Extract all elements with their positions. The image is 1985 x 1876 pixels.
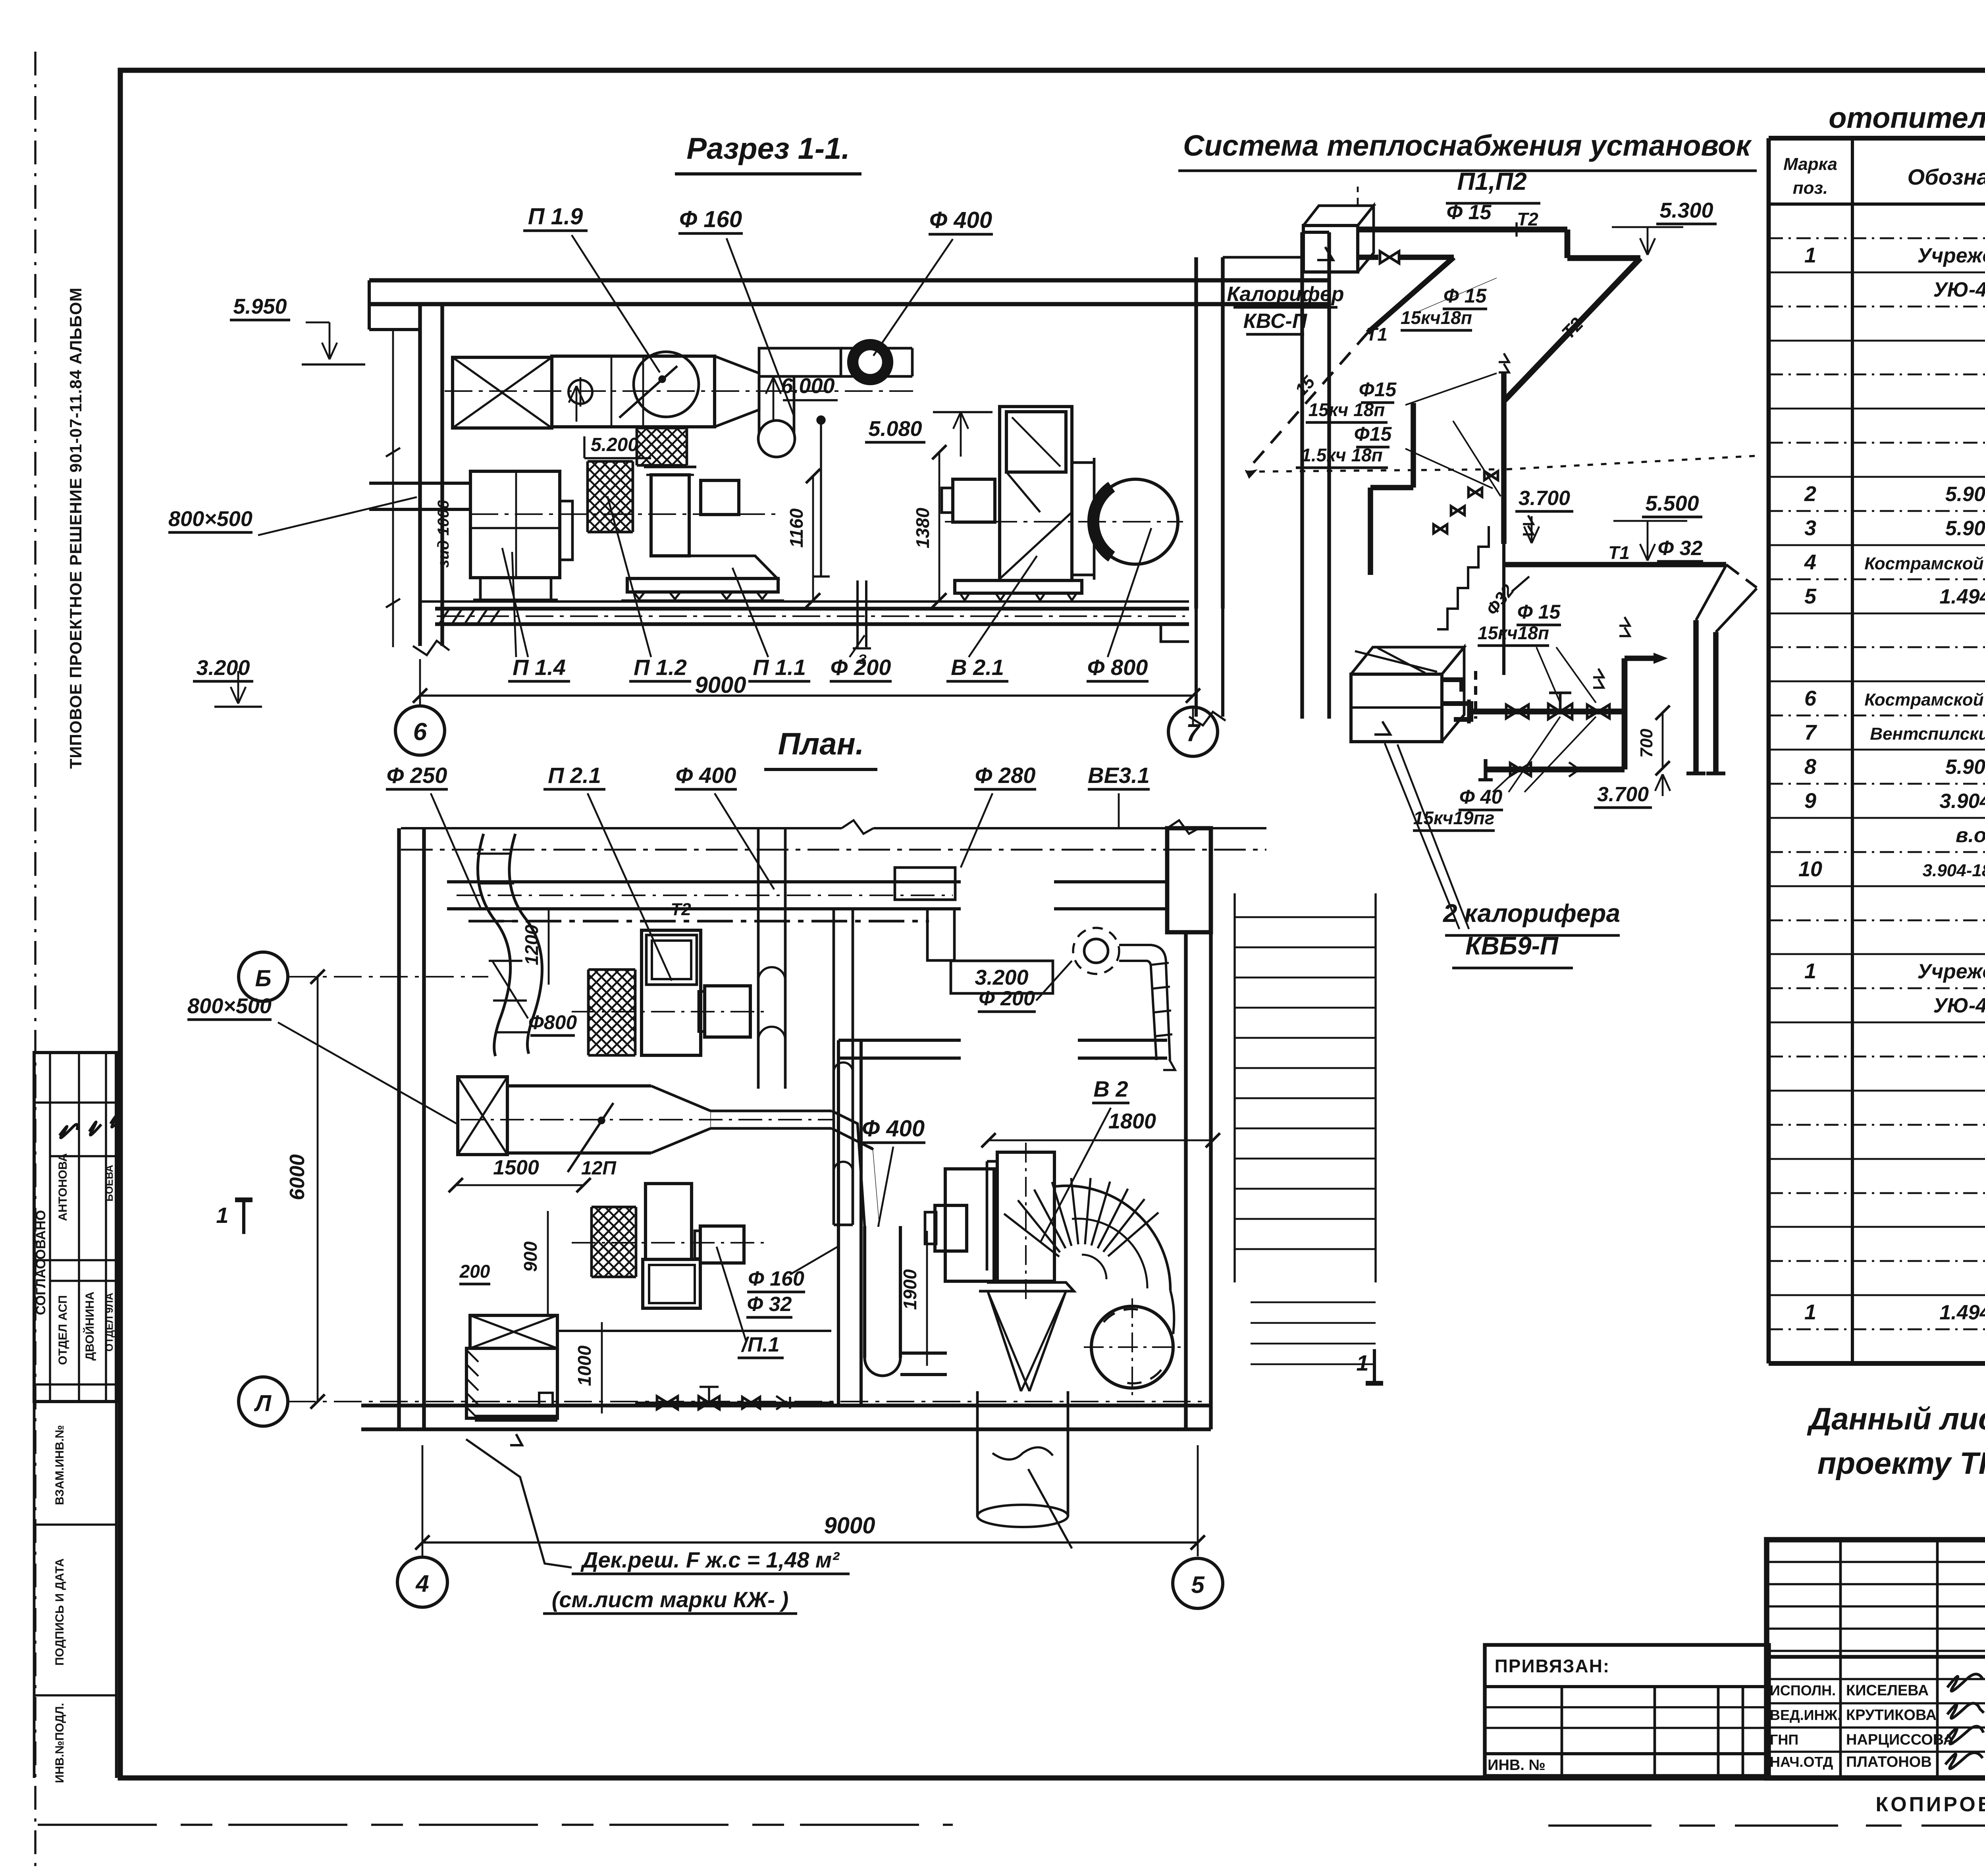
plan F400 elbow down-duct [863,1226,866,1358]
iso valves on diagonal [1434,524,1440,533]
left margin inventory strip [33,1402,36,1778]
plan lower-left unit box [466,1348,557,1418]
plan duct damper [568,1103,613,1172]
plan stairwell [1233,893,1235,1282]
svg-text:ИСПОЛН.: ИСПОЛН. [1770,1682,1836,1699]
svg-text:/П.1: /П.1 [741,1333,779,1356]
section inner right column [1194,257,1198,609]
plan fan P2.1 motor [705,986,750,1037]
svg-text:Ф 280: Ф 280 [975,763,1036,788]
svg-text:3.200: 3.200 [196,656,250,680]
fan V2.1 base [955,580,1082,593]
svg-text:ПОДПИСЬ И ДАТА: ПОДПИСЬ И ДАТА [53,1558,66,1666]
svg-text:1: 1 [1356,1350,1368,1375]
plan duct risers [757,828,760,1089]
f400 duct ring (dark) [853,345,888,380]
plan round duct run [711,1110,832,1112]
svg-text:Ф 15: Ф 15 [1443,285,1487,307]
title block outer [1767,1540,1985,1778]
svg-text:1.494-32: 1.494-32 [1939,1301,1985,1324]
plan fan B2 housing duct [997,1152,1054,1281]
svg-text:ИНВ. №: ИНВ. № [1488,1757,1546,1774]
spec table grid [1769,136,1985,141]
duct transition cone [715,356,759,427]
plan fan P1.1 motor [700,1226,744,1263]
plan bottom dim 9000 [422,1541,1198,1543]
svg-text:Ф 250: Ф 250 [387,763,447,788]
svg-text:НАРЦИССОВА: НАРЦИССОВА [1846,1731,1954,1748]
svg-text:проекту ТП 901-3-14/70: проекту ТП 901-3-14/70 [1817,1446,1985,1481]
iso stair-step symbol [1437,526,1489,629]
svg-text:5.080: 5.080 [868,417,922,441]
svg-text:П 1.2: П 1.2 [634,655,687,680]
svg-text:Ф 32: Ф 32 [1658,537,1703,560]
svg-text:3.700: 3.700 [1597,783,1649,806]
svg-text:Т2: Т2 [1517,209,1538,229]
svg-text:6.000: 6.000 [781,374,834,398]
svg-text:ПРИВЯЗАН:: ПРИВЯЗАН: [1495,1656,1610,1676]
title block left revision grid [1767,1561,1985,1563]
svg-text:Ф 32: Ф 32 [747,1293,792,1316]
svg-text:Ф 160: Ф 160 [679,206,742,232]
paper edge line left [34,52,36,1866]
svg-text:Ф15: Ф15 [1359,378,1397,401]
svg-text:4: 4 [415,1570,429,1597]
svg-text:15кч18п: 15кч18п [1478,623,1549,643]
title block top line to table [1767,1656,1769,1657]
flexible insert hatch upper [637,427,687,430]
svg-text:5.904-5: 5.904-5 [1945,517,1985,540]
svg-text:1.5кч 18п: 1.5кч 18п [1301,445,1383,465]
plan duct to B2 [900,1352,947,1355]
svg-text:ОТДЕЛ АСП: ОТДЕЛ АСП [56,1295,69,1365]
svg-text:9000: 9000 [695,672,746,698]
svg-text:5.904-4: 5.904-4 [1945,756,1985,779]
plan corridor duct segment F280 [895,868,955,900]
section right column below floor with break [1195,609,1198,717]
svg-text:1800: 1800 [1108,1109,1156,1133]
iso F32 diagonal to right [1726,565,1757,588]
svg-text:ИНВ.№ПОДЛ.: ИНВ.№ПОДЛ. [53,1703,66,1783]
plan lower-left unit louvre [470,1315,557,1348]
svg-text:1900: 1900 [900,1269,920,1310]
plan fan B2 flange [979,1282,1074,1291]
plan lower centerline [572,1242,768,1244]
svg-text:КВС-П: КВС-П [1243,310,1308,333]
section label leaders [502,548,528,657]
grid bubble 6 [395,706,445,755]
svg-text:КРУТИКОВА: КРУТИКОВА [1846,1707,1937,1724]
iso pipe T1 from cube [1358,255,1378,260]
approval signatures squiggles [60,1124,77,1138]
svg-text:Обозначение: Обозначение [1908,164,1985,189]
plan S-shaped flexible duct [478,834,510,1056]
svg-text:Ф15: Ф15 [1354,423,1392,445]
iso right support frame [1693,620,1699,773]
iso riser with air vents [1499,353,1509,362]
f200 pipe crossing floor [856,580,859,647]
svg-text:7: 7 [1804,721,1817,744]
svg-text:Кострамской калориф.з-д: Кострамской калориф.з-д [1864,554,1985,573]
plan T2 pipe dash line [468,920,929,923]
svg-text:Ф 800: Ф 800 [1087,655,1148,680]
plan fan B2 housing centerline [1025,1143,1027,1302]
svg-text:5: 5 [1191,1571,1205,1598]
svg-text:7: 7 [1186,719,1201,747]
iso pipe T2 top run [1358,227,1567,233]
section dimension line 9000 [420,694,1193,696]
plan B2 big circle F800 [1091,1306,1173,1388]
svg-text:КОПИРОВАЛ: ЛОГИНОВА: КОПИРОВАЛ: ЛОГИНОВА [1875,1793,1985,1816]
svg-text:1: 1 [1804,243,1816,267]
grid bubble 7 [1168,707,1218,756]
svg-text:П 1.9: П 1.9 [528,204,583,229]
plan partition wall [837,1040,840,1406]
svg-text:2: 2 [1804,482,1816,506]
plan F200 elbow ribbed [1119,945,1170,1060]
svg-text:1380: 1380 [912,507,933,548]
intake duct 800x500 through wall [369,482,470,485]
svg-text:ДВОЙНИНА: ДВОЙНИНА [83,1292,96,1361]
plan unit thick sill [475,1415,557,1422]
plan fan P1.1 box [646,1184,692,1259]
plan fan P2.1 flexible insert hatch [588,968,635,971]
grid bubble L [239,1377,288,1426]
svg-text:П 1.1: П 1.1 [753,655,806,680]
svg-text:УЮ-400/5: УЮ-400/5 [1933,994,1985,1017]
svg-text:Разрез 1-1.: Разрез 1-1. [686,132,850,166]
svg-text:(см.лист марки КЖ- ): (см.лист марки КЖ- ) [552,1587,788,1612]
plan right pier [1167,828,1211,932]
svg-text:8: 8 [1804,755,1816,779]
svg-text:Ф800: Ф800 [528,1011,577,1033]
svg-text:15кч18п: 15кч18п [1401,307,1472,328]
svg-text:ВЕД.ИНЖ.: ВЕД.ИНЖ. [1770,1707,1841,1723]
svg-text:3.700: 3.700 [1519,487,1570,510]
plan fan P1.1 flexible insert hatch [592,1206,636,1209]
svg-text:ВЕ3.1: ВЕ3.1 [1088,763,1150,788]
svg-text:Марка: Марка [1783,154,1837,174]
iso long dashed line to plan [1246,469,1501,472]
svg-text:УЮ-400/5: УЮ-400/5 [1933,278,1985,301]
fan discharge cone [652,556,777,578]
fan V2.1 motor [953,479,995,522]
iso cube2 pipe hooks [1442,680,1462,692]
svg-text:1: 1 [1804,959,1816,983]
iso lower branch pipe [1486,767,1625,773]
section floor slab [420,600,1189,603]
section right outer column [1300,232,1304,719]
svg-text:Система теплоснабжения устан: Система теплоснабжения установок [1183,129,1752,162]
fan V2.1 connecting duct [1072,461,1094,464]
svg-text:КВБ9-П: КВБ9-П [1465,931,1559,960]
svg-text:В 2: В 2 [1093,1076,1128,1101]
svg-text:5.950: 5.950 [233,295,287,318]
iso Z-shaped pipe left [1411,403,1416,488]
svg-text:Учреждение: Учреждение [1918,960,1985,983]
svg-text:П1,П2: П1,П2 [1457,168,1526,195]
svg-text:5.300: 5.300 [1659,199,1713,222]
plan heating valve row [635,1402,834,1404]
svg-text:3.904-18: 3.904-18 [1939,790,1985,813]
plan duct transition [651,1086,711,1153]
svg-text:5.200: 5.200 [591,434,638,455]
svg-text:1000: 1000 [574,1345,595,1386]
svg-text:3.200: 3.200 [975,966,1028,989]
svg-text:П 2.1: П 2.1 [548,763,601,788]
fan motor box [701,480,739,515]
iso calorifier cube top-left [1303,226,1358,272]
svg-text:План.: План. [778,726,864,761]
iso leader zigzags [1405,373,1497,405]
iso vent triangles mid [1523,515,1533,524]
plan triangle marker [510,1434,522,1445]
iso vent triangles right [1593,669,1603,677]
svg-text:5.500: 5.500 [1645,492,1699,515]
grid bubble 4 [397,1557,447,1607]
plan right wall [1184,932,1187,1429]
svg-text:3.904-18 в.о;1: 3.904-18 в.о;1 [1923,861,1985,880]
plan top label leaders [431,793,481,909]
f200 riser with dot [817,416,825,424]
svg-text:Ф 400: Ф 400 [929,207,992,233]
svg-text:10: 10 [1798,857,1822,881]
grid bubble B [239,952,288,1001]
svg-text:Т1: Т1 [1608,542,1630,563]
plan axis lines to bubbles [288,976,488,978]
svg-text:Ф 15: Ф 15 [1517,601,1561,623]
svg-text:Ф 400: Ф 400 [676,763,736,788]
svg-text:15кч 18п: 15кч 18п [1309,399,1385,420]
plan outer top wall line with breaks [401,827,842,829]
svg-text:6: 6 [1804,686,1817,710]
plan bottom wall [361,1404,1211,1407]
svg-text:Ф 400: Ф 400 [862,1116,925,1141]
plan F400 elbow top connect [832,1111,865,1227]
plan corridor axis line [401,849,1266,851]
section beam over opening [1223,256,1302,259]
plan label F800 bottom leader [1028,1469,1072,1548]
svg-text:В 2.1: В 2.1 [951,655,1004,680]
unit P1.4 air handling box [470,471,560,578]
svg-text:З: З [858,652,867,667]
svg-text:9000: 9000 [824,1513,875,1539]
svg-text:в.о;1: в.о;1 [1956,824,1985,847]
svg-text:Б: Б [255,966,271,991]
fan V2.1 scroll circle with crescent [1093,479,1178,564]
plan pipe F32 line [557,1330,831,1332]
fan V2.1 stand frame [1000,407,1072,580]
svg-text:П 1.4: П 1.4 [513,655,566,680]
svg-text:1.494-25: 1.494-25 [1939,585,1985,608]
section centerlines [445,390,913,392]
svg-text:200: 200 [459,1261,490,1282]
plan fan P1.1 inner square [643,1259,700,1308]
svg-text:1500: 1500 [493,1156,539,1179]
svg-text:Кострамской калориф.з-д: Кострамской калориф.з-д [1864,690,1985,710]
grid bubble 5 [1173,1558,1223,1608]
supply duct at ceiling [552,356,715,427]
iso dashed continuation line 15 [1246,333,1368,472]
svg-text:6: 6 [413,718,427,746]
svg-text:12П: 12П [581,1158,617,1179]
svg-text:Учреждение: Учреждение [1918,244,1985,267]
plan F160 riser duct down the middle [833,909,835,1225]
svg-text:АНТОНОВА: АНТОНОВА [56,1153,69,1221]
svg-text:Ф 200: Ф 200 [979,987,1035,1010]
iso valve manifold [1469,709,1625,715]
iso pipe T2 diagonal [1505,258,1640,400]
privyazan attachment table [1485,1645,1769,1776]
svg-text:ТИПОВОЕ ПРОЕКТНОЕ РЕШЕНИЕ 90: ТИПОВОЕ ПРОЕКТНОЕ РЕШЕНИЕ 901-07-11.84 А… [66,287,85,769]
vertical duct drop and circle [758,376,761,434]
svg-text:ОТДЕЛ 9ЛА: ОТДЕЛ 9ЛА [103,1293,115,1352]
plan section cut mark left [242,1200,245,1234]
svg-text:Данный лист соответствует: Данный лист соответствует типовому [1807,1401,1985,1436]
fan base frame [627,578,778,592]
svg-text:Т1: Т1 [1366,324,1388,345]
plan upper centerline [572,1011,768,1012]
svg-text:900: 900 [520,1241,541,1272]
duct run to f400 [841,347,912,350]
duct louvre intake [453,357,552,428]
svg-text:6000: 6000 [286,1154,309,1200]
section ceiling slab [369,278,1329,283]
svg-text:1: 1 [216,1203,228,1228]
svg-text:поз.: поз. [1793,178,1828,198]
title block signatures [1947,1674,1983,1691]
svg-text:5.904-5: 5.904-5 [1945,483,1985,506]
svg-text:3: 3 [1804,516,1816,540]
svg-text:1: 1 [1804,1300,1816,1324]
svg-text:2 калорифера: 2 калорифера [1443,899,1620,927]
svg-text:700: 700 [1637,729,1656,758]
svg-text:Калорифер: Калорифер [1227,283,1344,306]
plan corridor duct band [447,880,961,883]
plan left wall [397,828,401,1429]
iso pipe T1 F32 horizontal [1504,562,1726,567]
svg-text:Ф 15: Ф 15 [1447,201,1492,224]
svg-text:КИСЕЛЕВА: КИСЕЛЕВА [1846,1682,1929,1699]
svg-text:5: 5 [1804,584,1817,608]
svg-text:1200: 1200 [521,924,542,965]
svg-text:ПЛАТОНОВ: ПЛАТОНОВ [1846,1754,1932,1770]
section floor right step [1161,624,1189,642]
plan main supply duct with louvre [458,1077,507,1155]
svg-text:Дек.реш. F ж.с = 1,48 м²: Дек.реш. F ж.с = 1,48 м² [580,1547,840,1572]
paper bottom edge dashes [38,1824,953,1826]
plan fan B2 scroll with radial vanes [1056,1186,1170,1290]
flexible insert hatch left [588,460,633,463]
svg-text:ВЗАМ.ИНВ.№: ВЗАМ.ИНВ.№ [53,1425,66,1505]
plan F200 grille top right [1073,928,1119,974]
svg-text:4: 4 [1804,550,1816,574]
plan fan P2.1 box [642,930,701,1055]
svg-text:Т2: Т2 [671,900,691,919]
svg-text:800×500: 800×500 [168,507,252,531]
section left wall [418,304,422,646]
fan P1.1 vertical duct [644,466,696,469]
plan fan B2 inlet box stepped [945,1169,994,1281]
plan stair lower flight [1251,1301,1376,1303]
fan V2.1 braces [1000,512,1072,579]
section left vertical dim chain [392,330,394,647]
svg-text:БОЕВА: БОЕВА [103,1165,115,1202]
svg-text:800×500: 800×500 [187,994,272,1018]
iso vent triangles over riser [1619,617,1630,626]
iso calorifier cube 2 [1351,674,1442,742]
duct elbow at top [759,348,841,376]
plan fan B2 discharge cone with X [988,1291,1021,1391]
left margin approval stamp table [34,1053,116,1402]
fan inlet circle [634,352,699,417]
svg-text:Вентспилский вент. з-д.: Вентспилский вент. з-д. [1870,724,1985,744]
plan section cut mark right [1373,1349,1376,1383]
svg-text:отопительно-вентиляционных уст: отопительно-вентиляционных установок [1829,101,1985,134]
svg-text:Л: Л [254,1390,272,1416]
iso manifold right riser [1622,658,1628,769]
svg-text:9: 9 [1804,789,1816,813]
svg-text:ГНП: ГНП [1770,1731,1798,1748]
plan F800 duct below wall [976,1391,979,1517]
svg-text:СОГЛАСОВАНО: СОГЛАСОВАНО [33,1210,48,1315]
svg-text:НАЧ.ОТД: НАЧ.ОТД [1770,1754,1833,1770]
iso leaders to cubes [1385,743,1459,929]
duct damper handle [619,366,677,418]
plan boxed level 3.200 [951,961,1053,993]
svg-text:1160: 1160 [786,508,807,548]
